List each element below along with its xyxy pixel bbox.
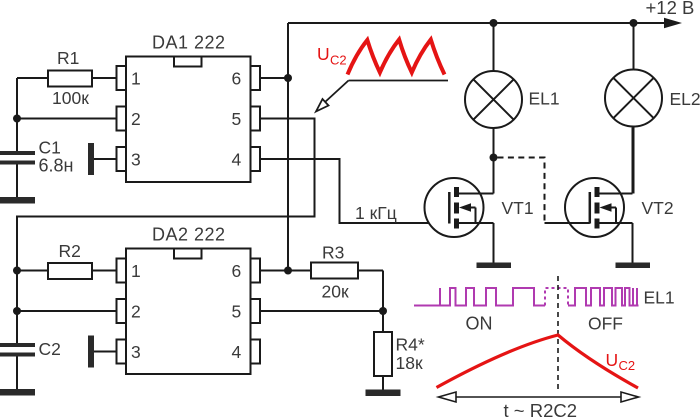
svg-text:2: 2 bbox=[131, 109, 141, 129]
ground R4 bbox=[366, 390, 401, 397]
junction DA2 pin5 / R4 bbox=[379, 307, 387, 315]
waveform sawtooth Uc2 (red) bbox=[348, 40, 445, 75]
lamp EL1 bbox=[493, 23, 495, 71]
wire VT2 gate lead bbox=[545, 222, 590, 224]
svg-text:1 кГц: 1 кГц bbox=[355, 203, 397, 223]
ground VT1 bbox=[477, 263, 512, 269]
svg-text:DA2 222: DA2 222 bbox=[152, 225, 226, 245]
svg-text:R1: R1 bbox=[57, 48, 79, 68]
svg-text:4: 4 bbox=[232, 342, 242, 362]
svg-text:C2: C2 bbox=[39, 339, 61, 359]
transistor VT2 (n-channel MOSFET) bbox=[565, 128, 633, 263]
svg-text:2: 2 bbox=[131, 302, 141, 322]
wire DA2 pin5 bbox=[260, 310, 383, 312]
DA2 pin numbers 1,2,3,6,5,4 bbox=[131, 261, 242, 362]
svg-text:t ~ R2C2: t ~ R2C2 bbox=[504, 400, 578, 419]
svg-text:ON: ON bbox=[466, 314, 493, 334]
wire DA1 pin5 route bbox=[17, 119, 315, 271]
wire DA1 pin2 bbox=[17, 118, 117, 120]
+12 В power arrow bbox=[664, 18, 682, 28]
svg-text:EL1: EL1 bbox=[529, 89, 560, 109]
svg-text:R4*: R4* bbox=[396, 335, 425, 355]
junction rail-EL2 bbox=[630, 19, 638, 27]
junction EL1 / VT1 drain bbox=[490, 154, 498, 162]
ground DA2 pin3 bar bbox=[88, 336, 94, 368]
junction DA1 pin2 node bbox=[13, 115, 21, 123]
junction DA2 pin2 node bbox=[13, 307, 21, 315]
resistor R3 bbox=[288, 270, 311, 272]
junction DA2 pin1 node bbox=[13, 267, 21, 275]
IC DA1 222 body with notch and pin stubs bbox=[117, 57, 261, 183]
DA1 pin numbers 1,2,3,6,5,4 bbox=[131, 69, 242, 170]
annotation underline bbox=[349, 80, 449, 82]
svg-text:6.8н: 6.8н bbox=[39, 156, 74, 176]
label Uc2 bottom (red) bbox=[606, 350, 636, 373]
dashed timing divider bbox=[557, 276, 559, 391]
resistor R2 bbox=[17, 270, 48, 272]
svg-text:4: 4 bbox=[232, 150, 242, 170]
ground C2 bbox=[0, 389, 35, 396]
svg-text:VT2: VT2 bbox=[642, 198, 674, 218]
svg-text:100к: 100к bbox=[52, 88, 89, 108]
ground DA1 pin3 bar bbox=[88, 143, 94, 175]
wire DA1 pin4 route to VT1 gate bbox=[260, 159, 449, 223]
IC DA2 222 body with notch and pin stubs bbox=[117, 249, 261, 375]
node lower-left vertical bbox=[16, 271, 18, 344]
waveform EL1 pulses (purple) bbox=[414, 288, 639, 306]
wire DA2 pin2 bbox=[17, 310, 117, 312]
resistor R4 bbox=[374, 332, 392, 376]
svg-text:5: 5 bbox=[232, 302, 242, 322]
label Uc2 top (red) bbox=[317, 44, 347, 68]
dimension arrow t ~ R2C2 bbox=[455, 396, 622, 398]
svg-text:U: U bbox=[317, 44, 330, 64]
waveform Uc2 bottom (red) bbox=[437, 335, 639, 388]
svg-text:5: 5 bbox=[232, 109, 242, 129]
svg-text:R2: R2 bbox=[59, 241, 81, 261]
svg-text:EL1: EL1 bbox=[644, 288, 675, 308]
svg-text:VT1: VT1 bbox=[502, 198, 534, 218]
wire R3 to R4 bbox=[382, 271, 384, 333]
lamp EL2 bbox=[633, 23, 635, 71]
wire +12V rail bbox=[288, 22, 666, 24]
svg-text:18к: 18к bbox=[396, 353, 423, 373]
svg-text:EL2: EL2 bbox=[670, 89, 700, 109]
wire DA2 pin6 bbox=[260, 270, 288, 272]
svg-text:6: 6 bbox=[232, 69, 242, 89]
ground C1 bbox=[0, 197, 35, 204]
junction DA1 pin6 bbox=[284, 74, 292, 82]
resistor R1 bbox=[17, 77, 48, 79]
junction DA2 pin6 / R3 bbox=[284, 267, 292, 275]
capacitor C1 bbox=[0, 151, 35, 155]
svg-text:OFF: OFF bbox=[588, 314, 623, 334]
svg-text:C2: C2 bbox=[330, 53, 347, 68]
svg-text:C2: C2 bbox=[619, 358, 636, 373]
svg-text:+12 В: +12 В bbox=[646, 0, 695, 18]
capacitor C2 bbox=[0, 343, 35, 347]
transistor VT1 (n-channel MOSFET) bbox=[425, 158, 494, 263]
svg-text:20к: 20к bbox=[322, 282, 349, 302]
wire DA1 pin6 bbox=[260, 77, 288, 79]
svg-text:1: 1 bbox=[131, 69, 141, 89]
svg-text:U: U bbox=[606, 350, 619, 370]
svg-text:C1: C1 bbox=[39, 138, 61, 158]
wire dashed EL1 to VT2 gate bbox=[498, 158, 545, 222]
svg-text:1: 1 bbox=[131, 261, 141, 281]
svg-text:3: 3 bbox=[131, 342, 141, 362]
svg-text:R3: R3 bbox=[322, 243, 344, 263]
svg-text:3: 3 bbox=[131, 150, 141, 170]
svg-text:6: 6 bbox=[232, 261, 242, 281]
annotation pointer with open arrowhead bbox=[325, 81, 349, 103]
svg-text:DA1 222: DA1 222 bbox=[152, 33, 226, 53]
node main vertical bus from rail to DA2 pin6 bbox=[287, 23, 289, 271]
ground VT2 bbox=[616, 263, 651, 269]
junction rail-EL1 bbox=[490, 19, 498, 27]
node upper-left vertical bbox=[16, 78, 18, 151]
